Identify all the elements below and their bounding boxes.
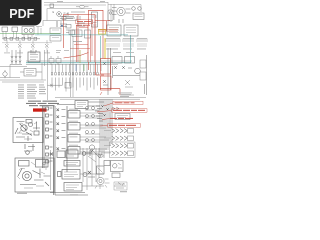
wire blue drop	[75, 64, 77, 71]
frame ground cluster	[49, 56, 61, 65]
connector rows right col	[57, 109, 66, 151]
stacked connector left	[50, 28, 61, 41]
flasher box	[20, 69, 42, 77]
wire dark band over teal	[0, 61, 132, 67]
wire teal run upper	[35, 34, 128, 36]
choke cable figure	[24, 144, 35, 154]
instrument cluster	[2, 27, 42, 39]
wire red diagonal link	[64, 45, 91, 59]
starter relay guts	[103, 62, 108, 85]
breaker figure cluster	[114, 182, 127, 190]
points detail box	[111, 161, 124, 172]
relay small	[108, 10, 113, 21]
section divider vertical	[45, 50, 48, 100]
handlebar switch row	[2, 40, 52, 52]
red annotation 3	[102, 118, 133, 120]
fuse link box row1	[57, 101, 104, 109]
wire labels small top center	[56, 50, 69, 53]
connector block B	[124, 25, 138, 36]
switch bank labels	[52, 78, 98, 92]
caption text top section	[26, 101, 59, 107]
turn signal relay	[60, 16, 85, 35]
terminal comb A	[106, 39, 120, 47]
regulator small box	[104, 161, 110, 166]
fuse box label	[64, 161, 80, 167]
pickup coil eye	[98, 154, 103, 157]
breather oval	[76, 5, 89, 8]
stator ring	[89, 145, 94, 150]
battery box	[50, 183, 85, 193]
red annotation 4	[100, 124, 141, 128]
wire harness top bus	[44, 2, 141, 25]
diode block inside	[72, 30, 91, 38]
pickup feed wires	[104, 112, 111, 153]
bottom feed wires	[55, 95, 146, 99]
wire green run	[0, 32, 60, 34]
wiring diagram linework	[0, 1, 147, 195]
switch bank contacts	[51, 73, 98, 76]
frame sub-diagram border	[43, 9, 78, 28]
yellow connector highlight	[99, 30, 106, 34]
relay bank boxes	[68, 111, 111, 155]
wire teal main band	[26, 62, 131, 64]
pickup pair label box	[112, 107, 130, 120]
blue wire node	[61, 25, 63, 27]
page background	[0, 0, 149, 198]
bus branch wires	[85, 110, 100, 142]
figure caption	[17, 193, 27, 194]
vertical bus right bundle	[100, 99, 112, 158]
mid right labels	[113, 52, 134, 97]
terminal comb C	[137, 39, 147, 47]
wire teal right corner	[130, 35, 132, 63]
right side stator unit	[108, 48, 147, 95]
fuse holder box	[28, 50, 40, 62]
gear cover figure	[95, 177, 110, 189]
wire green drop	[83, 64, 85, 71]
relay bank labels	[69, 109, 78, 150]
horn unit	[3, 70, 7, 78]
wire red drop center	[89, 62, 105, 75]
junction connector	[57, 12, 85, 28]
red annotation 2	[97, 109, 147, 113]
wire red highlight circuit box	[64, 15, 96, 63]
starter motor figure	[15, 158, 54, 192]
main harness verticals	[71, 30, 74, 97]
PDF badge	[0, 0, 42, 26]
red title bar	[33, 108, 47, 111]
rectifier diode cluster	[10, 50, 22, 65]
wire olive vertical	[79, 50, 81, 63]
tiny caption top	[57, 0, 105, 3]
CDI unit box	[58, 170, 96, 180]
carburetor figure	[13, 118, 43, 143]
comb captions	[106, 48, 146, 51]
bottom right caption	[70, 191, 127, 195]
switch labels row	[4, 52, 50, 55]
wire teal drop mid	[100, 36, 102, 62]
junction cluster	[95, 105, 109, 121]
switch bank verticals	[52, 64, 101, 72]
fuse text rows inside	[65, 16, 82, 42]
regulator rectifier box	[50, 150, 92, 158]
fuse row	[2, 37, 40, 40]
ignition switch block	[50, 4, 69, 16]
wire red branch to right	[76, 10, 110, 62]
red note label top	[76, 20, 93, 28]
terminal comb B	[123, 39, 134, 47]
headlamp unit	[112, 7, 131, 15]
red annotation 1	[104, 101, 143, 106]
svg-text:PDF: PDF	[9, 7, 34, 21]
relay socket circles	[86, 107, 95, 142]
bottom link wires	[51, 148, 105, 190]
main relay box	[92, 12, 98, 27]
ignition pickup row 1	[112, 129, 134, 134]
wire red right feed	[100, 48, 120, 95]
left bus lines	[0, 63, 46, 82]
connector rows left col	[43, 106, 89, 195]
connector block A	[107, 25, 121, 36]
ignition pickup row 3	[112, 144, 134, 149]
pickup enclosure	[110, 142, 136, 158]
condenser box	[112, 173, 120, 178]
ground lead arrow	[48, 83, 72, 89]
kill switch box	[97, 166, 105, 174]
wire orange pair	[98, 29, 118, 31]
pilot lamp cluster	[119, 7, 144, 23]
ignition pickup row 2	[112, 136, 134, 141]
wire yellow vertical	[104, 38, 106, 59]
ignition pickup row 4	[112, 151, 134, 156]
wire colour legend	[18, 85, 46, 99]
